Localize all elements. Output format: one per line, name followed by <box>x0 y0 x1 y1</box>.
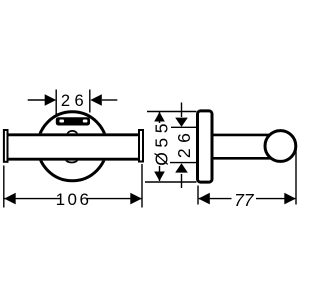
side view: arm top edge <box>211 134 272 137</box>
dim 106 bottom: right arrow <box>130 193 142 205</box>
svg-text:26: 26 <box>174 128 194 158</box>
bottom set-screw oval <box>66 156 78 162</box>
bar bottom edge <box>8 158 140 161</box>
svg-text:77: 77 <box>234 190 255 210</box>
top set-screw oval <box>67 131 77 138</box>
svg-text:Ø55: Ø55 <box>152 119 172 166</box>
dim 26 side: bottom arrow <box>175 163 188 172</box>
dim 26 side: line above <box>181 103 183 118</box>
dim diam 55: top arrow <box>154 112 165 122</box>
dim 26 side: top arrow <box>175 118 188 127</box>
bar left end cap <box>4 130 8 162</box>
svg-text:106: 106 <box>56 190 92 209</box>
side view: wall plate <box>198 111 213 182</box>
dim 77: right arrow <box>284 193 296 205</box>
dim 26 top: right extension line <box>89 90 91 113</box>
bar top edge <box>8 133 140 136</box>
side view: arm bottom edge <box>211 157 272 160</box>
bar right end cap <box>139 130 143 162</box>
dim 26 side: top extension line <box>171 126 196 128</box>
dim diam 55: top extension line <box>147 111 196 113</box>
dim diam 55: bottom arrow <box>154 172 165 182</box>
bar body (white mask over circle) <box>8 133 139 160</box>
dim 26 top: left tail <box>28 99 45 101</box>
dim 106 bottom: line left segment <box>5 198 61 200</box>
dim 26 side: line below <box>181 174 183 188</box>
dim 77: left arrow <box>198 193 210 205</box>
side view: ball knob <box>265 131 296 162</box>
dim diam 55: line bottom segment <box>159 166 161 181</box>
dim 106 bottom: right extension line <box>141 164 143 208</box>
dim 77: line right segment <box>256 198 295 200</box>
bracket screw hole left <box>59 120 64 123</box>
dim 26 top: left extension line <box>55 90 57 116</box>
dim diam 55: bottom extension line <box>145 181 196 183</box>
dim 77: right extension line <box>295 150 297 205</box>
dim 26 top: right arrow <box>90 94 102 106</box>
dim 77: line left segment <box>199 198 232 200</box>
dim diam 55: line top segment <box>159 112 161 123</box>
dim 106 bottom: left arrow <box>4 193 16 205</box>
svg-text:26: 26 <box>61 92 88 110</box>
dim 106 bottom: left extension line <box>3 166 5 208</box>
dim 26 top: right tail <box>102 99 118 101</box>
dim 26 side: bottom extension line <box>170 162 196 164</box>
front view: wall rosette circle <box>38 112 107 181</box>
dim 26 top: left arrow <box>45 94 57 106</box>
front view: mounting bracket (black) <box>56 117 90 125</box>
dim 106 bottom: line right segment <box>87 198 142 200</box>
bracket screw hole right <box>83 120 88 123</box>
dim 77: left extension line <box>197 186 199 205</box>
